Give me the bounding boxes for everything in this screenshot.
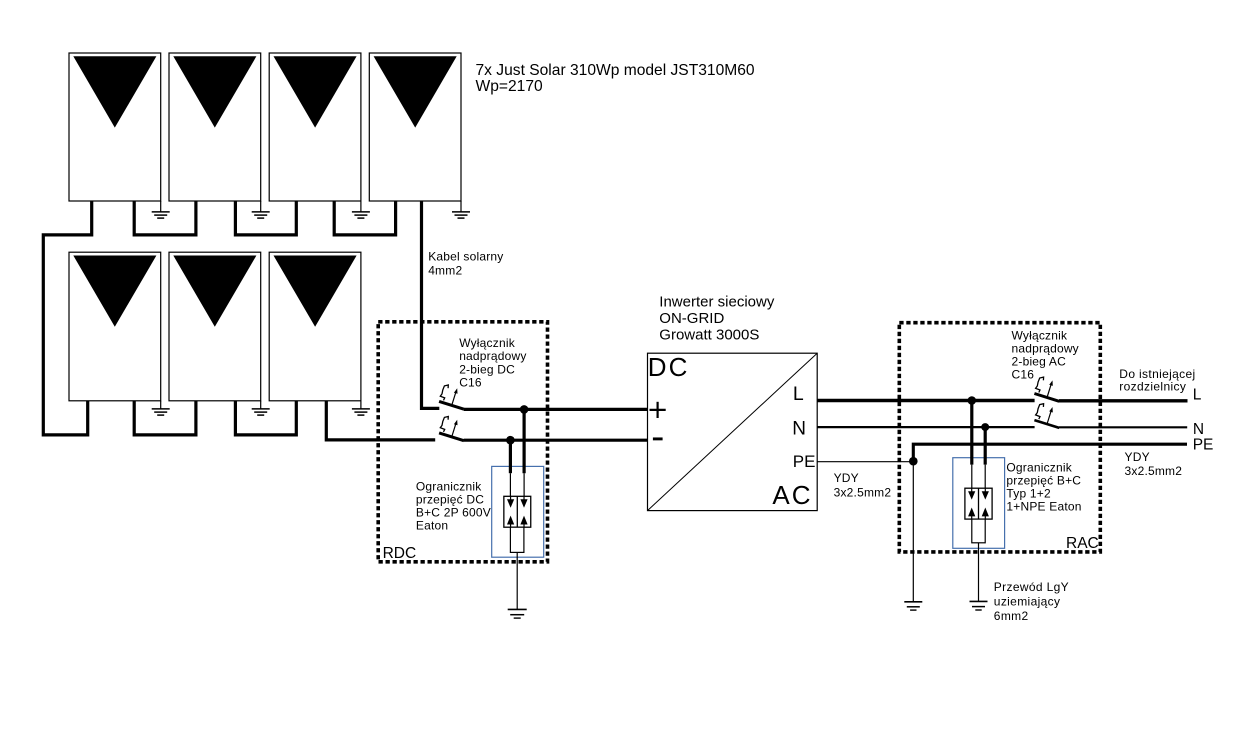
wire: SPD1 to earth — [516, 552, 518, 609]
ground (SPD1 earth) — [508, 609, 527, 618]
RDC enclosure (dashed) — [378, 322, 547, 562]
ground (PV5 frame) — [152, 401, 170, 415]
wire: SPD2 to earth — [978, 543, 980, 601]
label: YDY right — [1125, 450, 1183, 478]
breaker Q1 pole 2 (DC -) — [439, 417, 464, 441]
ground (PE earth electrode) — [904, 602, 922, 610]
svg-text:AC: AC — [772, 480, 812, 510]
breaker Q1 pole 1 (DC +) — [439, 385, 464, 409]
inverter U1 (Growatt 3000S) box — [648, 353, 818, 510]
wire: PV3-PV4 series link — [334, 201, 395, 235]
svg-text:2-bieg AC: 2-bieg AC — [1012, 355, 1067, 369]
label: YDY left — [834, 471, 892, 499]
wire: PV4 plus lead (kabel solarny) to DC breaker — [422, 201, 440, 408]
label: SPD1 description — [416, 480, 491, 533]
node: - line tap to SPD1 — [506, 436, 515, 445]
svg-text:PE: PE — [793, 452, 816, 471]
wire: PV6-PV7 series link — [235, 401, 296, 435]
svg-text:C16: C16 — [459, 375, 482, 389]
label: kabel solarny — [428, 250, 503, 278]
wire: PE down to earth — [912, 461, 914, 601]
ground (PV4 frame) — [452, 201, 470, 218]
svg-text:rozdzielnicy: rozdzielnicy — [1119, 380, 1186, 394]
label: Q2 description — [1012, 329, 1079, 382]
ground (SPD2 earth) — [970, 601, 988, 610]
svg-text:PE: PE — [1193, 437, 1214, 454]
breaker Q2 pole 1 (L) — [1034, 377, 1059, 401]
svg-text:B+C 2P 600V: B+C 2P 600V — [416, 506, 491, 520]
solar panel PV1 — [69, 53, 161, 201]
wire: L tap down to SPD2 — [970, 401, 973, 465]
inverter diagonal — [648, 353, 818, 510]
surge protector SPD2 cells — [965, 488, 992, 519]
surge protector SPD1 cells — [504, 496, 531, 527]
svg-text:3x2.5mm2: 3x2.5mm2 — [1125, 464, 1183, 478]
svg-text:Inwerter sieciowy: Inwerter sieciowy — [659, 293, 775, 310]
solar panel PV6 — [169, 252, 261, 401]
solar panel PV4 — [369, 53, 461, 201]
node: L tap to SPD2 — [968, 396, 977, 405]
node: PE junction — [909, 457, 918, 466]
svg-text:przepięć B+C: przepięć B+C — [1006, 474, 1081, 488]
svg-text:ON-GRID: ON-GRID — [659, 310, 724, 327]
label: + terminal — [650, 402, 666, 418]
svg-text:nadprądowy: nadprądowy — [459, 349, 526, 363]
wire: PV1 left lead down-around to PV5 — [43, 201, 91, 435]
solar panel PV2 — [169, 53, 261, 201]
SPD2 base block — [972, 519, 985, 543]
label: SPD2 description — [1006, 461, 1081, 514]
wire: + tap down to SPD1 — [522, 409, 525, 473]
solar panel PV7 — [269, 252, 361, 401]
svg-text:2-bieg DC: 2-bieg DC — [459, 362, 515, 376]
ground (PV2 frame) — [252, 201, 270, 218]
solar panel PV3 — [269, 53, 361, 201]
svg-text:Growatt 3000S: Growatt 3000S — [659, 326, 759, 343]
svg-text:YDY: YDY — [834, 471, 859, 485]
wire: Q1 pole1 output to inverter + — [464, 408, 648, 411]
wire: - tap down to SPD1 — [509, 440, 512, 473]
wire: PV7 minus lead to DC breaker — [326, 401, 435, 440]
svg-text:Wp=2170: Wp=2170 — [476, 78, 544, 95]
svg-text:7x Just Solar 310Wp model JST3: 7x Just Solar 310Wp model JST310M60 — [476, 62, 755, 79]
svg-text:Eaton: Eaton — [416, 519, 448, 533]
svg-text:DC: DC — [648, 352, 690, 382]
svg-text:N: N — [792, 418, 806, 439]
svg-text:N: N — [1193, 421, 1204, 438]
wire: Q2 pole2 output (N) to switchboard — [1059, 426, 1187, 428]
svg-text:L: L — [793, 383, 804, 405]
wire: PE riser and bus to output — [913, 444, 1187, 461]
label: Q1 description — [459, 336, 526, 389]
ground (PV1 frame) — [152, 201, 170, 218]
svg-text:4mm2: 4mm2 — [428, 264, 462, 278]
surge protector SPD1 (DC) outline — [492, 466, 544, 557]
svg-text:Wyłącznik: Wyłącznik — [459, 336, 516, 350]
wire: N tap down to SPD2 — [984, 427, 987, 465]
label: inverter title — [659, 293, 775, 343]
svg-text:przepięć DC: przepięć DC — [416, 493, 484, 507]
SPD1 base block — [510, 527, 524, 552]
label: - terminal — [653, 437, 663, 440]
label: przewod LgY — [994, 580, 1069, 623]
svg-text:Ogranicznik: Ogranicznik — [416, 480, 482, 494]
RAC enclosure (dashed) — [899, 323, 1100, 552]
wire: inverter L to AC breaker — [817, 399, 1034, 402]
wire: Q1 pole2 output to inverter - — [464, 439, 648, 442]
svg-text:Typ 1+2: Typ 1+2 — [1006, 487, 1051, 501]
svg-text:RDC: RDC — [383, 545, 417, 562]
svg-text:L: L — [1193, 387, 1202, 404]
surge protector SPD2 (AC) outline — [953, 458, 1005, 549]
label: do istniejacej rozdzielnicy — [1119, 367, 1195, 394]
svg-text:C16: C16 — [1012, 368, 1035, 382]
svg-text:Kabel solarny: Kabel solarny — [428, 250, 503, 264]
wire: PV2-PV3 series link — [235, 201, 296, 235]
node: + line tap to SPD1 — [520, 405, 529, 414]
svg-text:Ogranicznik: Ogranicznik — [1006, 461, 1072, 475]
svg-text:3x2.5mm2: 3x2.5mm2 — [834, 485, 892, 499]
ground (PV7 frame) — [352, 401, 370, 415]
wire: Q2 pole1 output (L) to switchboard — [1059, 399, 1188, 402]
wire: PV5-PV6 series link — [134, 401, 196, 435]
node: N tap to SPD2 — [981, 423, 989, 431]
solar panel PV5 — [69, 252, 161, 401]
wire: inverter PE lead — [817, 461, 913, 463]
svg-text:uziemiający: uziemiający — [994, 595, 1061, 609]
breaker Q2 pole 2 (N) — [1034, 404, 1059, 428]
wire: PV1-PV2 series link — [134, 201, 196, 235]
svg-text:1+NPE Eaton: 1+NPE Eaton — [1006, 500, 1081, 514]
svg-text:RAC: RAC — [1066, 535, 1099, 552]
ground (PV3 frame) — [352, 201, 370, 218]
svg-text:Wyłącznik: Wyłącznik — [1012, 329, 1069, 343]
svg-text:nadprądowy: nadprądowy — [1012, 342, 1079, 356]
svg-text:Przewód LgY: Przewód LgY — [994, 580, 1069, 594]
ground (PV6 frame) — [252, 401, 270, 415]
svg-text:YDY: YDY — [1125, 450, 1150, 464]
wire: inverter N to AC breaker — [817, 426, 1034, 428]
label: PV array description — [476, 62, 755, 95]
svg-text:6mm2: 6mm2 — [994, 609, 1029, 623]
